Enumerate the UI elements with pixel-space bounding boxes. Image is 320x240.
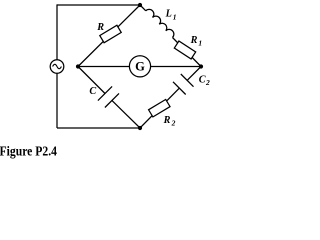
svg-text:L: L: [165, 9, 172, 20]
resistor R1: [174, 41, 195, 59]
svg-text:1: 1: [173, 12, 177, 21]
resistor R: [100, 25, 121, 43]
inductor L1: [146, 9, 174, 37]
svg-text:R: R: [163, 115, 171, 126]
svg-text:R: R: [190, 35, 198, 46]
node top junction dot: [138, 3, 142, 7]
node right junction dot: [199, 64, 203, 68]
capacitor C plate 1: [98, 86, 112, 100]
wire: bottom rail: [57, 127, 140, 129]
capacitor C plate 2: [105, 93, 119, 107]
wire: right node to capacitor C2: [187, 67, 201, 81]
wire: top rail: [57, 4, 140, 6]
wire: arm from left node to top node: [78, 5, 140, 67]
svg-text:1: 1: [198, 38, 202, 47]
galvanometer G: [129, 56, 150, 77]
svg-text:2: 2: [205, 78, 210, 87]
wire: left rail upper segment: [56, 4, 58, 60]
capacitor C2 plate 2: [173, 82, 186, 95]
svg-text:C: C: [199, 75, 206, 86]
svg-text:2: 2: [171, 119, 176, 128]
wire: capacitor C2 to bottom node: [140, 88, 179, 128]
svg-text:G: G: [135, 60, 145, 74]
wire: capacitor C to bottom node: [112, 100, 140, 128]
wire: top node to coil stub: [140, 5, 146, 11]
capacitor C2 plate 1: [181, 74, 194, 87]
node bottom junction dot: [138, 126, 142, 130]
wire: middle rail left node to right node: [78, 66, 201, 68]
node left junction dot: [76, 64, 80, 68]
svg-text:R: R: [96, 22, 104, 33]
wire: left rail lower segment: [56, 73, 58, 128]
resistor R2: [149, 99, 170, 117]
svg-text:Figure P2.4: Figure P2.4: [0, 144, 57, 159]
wire: coil to right node: [173, 38, 202, 67]
wire: left node to capacitor C: [78, 67, 105, 94]
AC source: [50, 60, 64, 74]
svg-text:C: C: [89, 86, 96, 97]
